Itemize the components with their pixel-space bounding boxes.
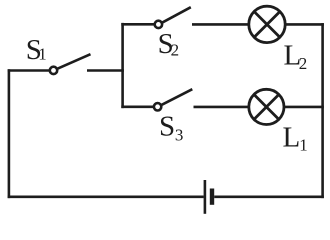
wire: right vertical	[321, 23, 324, 198]
wire: bottom right run	[214, 196, 324, 199]
svg-text:2: 2	[171, 41, 180, 60]
lamp L1 cross stroke 2	[254, 95, 279, 120]
lamp L1 cross stroke 1	[254, 95, 279, 120]
svg-text:2: 2	[299, 54, 308, 73]
switch S2 blade	[162, 7, 191, 23]
svg-text:1: 1	[38, 45, 47, 64]
wire: L2 right lead	[285, 23, 324, 26]
wire: left vertical	[8, 69, 11, 198]
switch S1 blade	[57, 54, 91, 69]
wire: L1 right lead	[284, 106, 324, 109]
svg-text:3: 3	[175, 125, 184, 144]
wire: top branch left lead	[121, 23, 154, 26]
switch S3 pivot circle	[154, 103, 161, 110]
label L2	[284, 40, 308, 73]
label S2	[158, 28, 180, 60]
wire: S3 to L1 lead	[194, 106, 250, 109]
wire: S1 right lead to middle junction	[87, 69, 124, 72]
battery B1 short plate (-)	[210, 189, 214, 205]
switch S2 pivot circle	[155, 21, 162, 28]
svg-text:L: L	[283, 121, 301, 153]
svg-text:S: S	[159, 110, 175, 142]
lamp L2 cross stroke 1	[254, 12, 279, 37]
svg-text:1: 1	[299, 136, 308, 155]
lamp L1 circle	[249, 89, 284, 124]
label L1	[283, 121, 308, 154]
wire: bottom left run	[8, 196, 204, 199]
switch S3 blade	[161, 89, 192, 105]
label S1	[26, 34, 47, 66]
wire: S2 to L2 lead	[192, 23, 249, 26]
lamp L2 cross stroke 2	[254, 12, 279, 37]
wire: S1 left lead	[8, 69, 50, 72]
lamp L2 circle	[249, 6, 285, 42]
wire: bottom branch left lead	[121, 106, 154, 109]
switch S1 pivot circle	[50, 67, 57, 74]
battery B1 long plate (+)	[204, 180, 207, 214]
label S3	[159, 110, 183, 144]
wire: middle vertical junction bar	[121, 23, 124, 108]
